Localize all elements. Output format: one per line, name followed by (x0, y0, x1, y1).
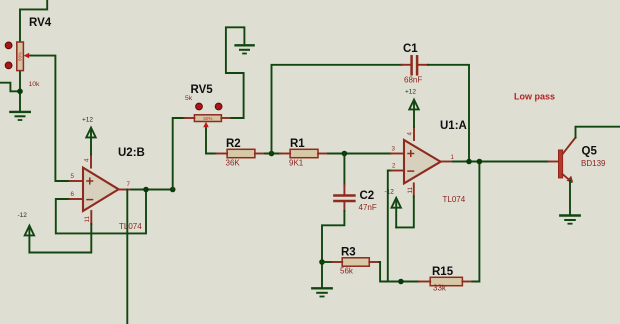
node R3/R15/pin2 junction (398, 279, 404, 285)
resistor R1 (280, 149, 328, 157)
svg-text:Low pass: Low pass (514, 92, 555, 102)
wire R3 to R15 node (379, 262, 419, 282)
node R3 junction (319, 259, 325, 265)
resistor R15 (419, 277, 472, 285)
ground above RV5 (236, 45, 254, 53)
svg-text:6: 6 (71, 191, 75, 198)
wire pin2 feedback down (388, 171, 392, 282)
svg-text:R3: R3 (341, 247, 356, 259)
node RV4 bottom junction (17, 89, 23, 95)
node output/R15 junction (477, 159, 483, 165)
svg-text:3: 3 (392, 146, 396, 153)
svg-text:4: 4 (407, 132, 414, 136)
resistor R3 (322, 258, 379, 266)
wire U2:B output (132, 189, 173, 191)
svg-text:BD139: BD139 (581, 159, 606, 168)
svg-text:33k: 33k (433, 284, 447, 293)
capacitor C1 (402, 56, 429, 74)
potentiometer RV4 (5, 42, 31, 71)
transistor Q5 (549, 138, 576, 183)
wire RV4 wiper to U2:B pin5 (31, 56, 70, 181)
wire output up to RV5 left terminal (173, 118, 185, 190)
svg-text:68nF: 68nF (404, 76, 422, 85)
node R2/R1/C1 junction (269, 151, 275, 157)
svg-text:11: 11 (407, 187, 414, 194)
svg-text:Q5: Q5 (582, 146, 598, 158)
wire output down to bottom edge (126, 190, 128, 324)
ground under Q5 (560, 216, 579, 224)
svg-text:U1:A: U1:A (440, 120, 467, 132)
wire U1:A output to Q5 base (453, 161, 549, 163)
capacitor C2 (334, 154, 354, 212)
svg-text:RV5: RV5 (191, 84, 214, 96)
node output/C1 junction (466, 159, 472, 165)
svg-text:1: 1 (451, 154, 455, 161)
svg-text:36K: 36K (226, 159, 241, 168)
power -12 for U2:B (18, 212, 35, 253)
node output junction 1 (143, 187, 149, 193)
op-amp U1:A (391, 127, 453, 197)
wire RV4 top terminal to top edge (20, 0, 47, 42)
svg-text:C1: C1 (403, 43, 418, 55)
svg-text:10k: 10k (29, 81, 41, 88)
svg-text:+12: +12 (82, 117, 93, 124)
svg-text:R1: R1 (290, 138, 305, 150)
svg-text:TL074: TL074 (443, 195, 466, 204)
svg-text:2: 2 (392, 163, 396, 170)
svg-text:U2:B: U2:B (118, 147, 145, 159)
op-amp U2:B (70, 155, 132, 225)
svg-text:47nF: 47nF (359, 203, 377, 212)
wire left edge into RV4 bottom node (0, 83, 20, 92)
svg-text:7: 7 (127, 181, 131, 188)
svg-text:C2: C2 (360, 190, 375, 202)
wire U2:B pin6 feedback loop (56, 190, 146, 234)
wire C2 bottom to R3 node and ground (322, 211, 344, 287)
wire R15 right up to output (472, 162, 479, 282)
svg-text:9K1: 9K1 (289, 159, 304, 168)
wire Q5 emitter to ground (569, 181, 571, 215)
svg-text:11: 11 (84, 216, 91, 223)
svg-text:R2: R2 (226, 138, 241, 150)
svg-text:-12: -12 (18, 212, 28, 219)
svg-text:+12: +12 (405, 89, 416, 96)
wire RV4 bottom terminal to ground (19, 71, 21, 112)
power +12 for U2:B (82, 117, 96, 155)
wire R2 to R1 (265, 153, 280, 155)
ground under RV4 (10, 112, 29, 120)
ground under R3 (312, 288, 331, 296)
wire C1 feedback left riser and top run (272, 65, 402, 154)
wire -12 to U1:A pin 11 (396, 197, 414, 228)
wire R1 to U1:A pin3 (328, 153, 391, 155)
wire RV5 wiper to R2 (206, 129, 217, 154)
svg-text:50%: 50% (203, 116, 212, 121)
node output junction 2 (170, 187, 176, 193)
wire -12 to U2:B pin 11 (29, 224, 91, 253)
potentiometer RV5 (184, 103, 231, 129)
svg-text:R15: R15 (432, 266, 454, 278)
wire Q5 collector to right edge (576, 127, 620, 138)
wire C1 right to U1:A output (428, 65, 469, 162)
svg-text:RV4: RV4 (29, 17, 52, 29)
wire RV5 right terminal to ground zigzag (226, 27, 245, 118)
svg-text:5k: 5k (185, 95, 193, 102)
svg-text:TL074: TL074 (119, 222, 142, 231)
resistor R2 (217, 149, 265, 157)
power -12 for U1:A (385, 189, 401, 228)
svg-text:50%: 50% (18, 52, 23, 61)
svg-text:56k: 56k (340, 267, 354, 276)
svg-text:4: 4 (84, 158, 91, 162)
svg-text:-12: -12 (385, 189, 395, 196)
power +12 for U1:A (405, 89, 419, 128)
svg-text:5: 5 (71, 173, 75, 180)
node C2 tap junction (342, 151, 348, 157)
